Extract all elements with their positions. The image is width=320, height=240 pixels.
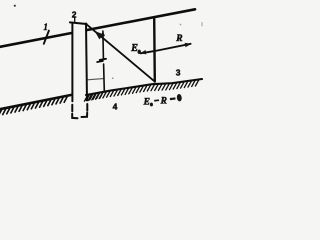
svg-text:E: E — [143, 98, 150, 108]
schematic figure: antenna above ground with rays and field vectors — [0, 0, 207, 136]
svg-text:4: 4 — [113, 102, 118, 112]
mast right edge — [86, 24, 87, 101]
svg-text:1: 1 — [43, 22, 48, 32]
height dimension upper segment — [102, 31, 105, 59]
wire: main slanted line right segment — [87, 9, 196, 30]
svg-text:3: 3 — [176, 68, 181, 78]
ground line right of mast — [86, 79, 202, 95]
left arrowhead (E0) — [140, 50, 147, 54]
receiving element at point 3 — [153, 19, 156, 82]
ray from mast top to point 3 — [87, 24, 155, 81]
leader from 2 to mast top — [74, 17, 76, 23]
ground hatching right — [84, 80, 199, 102]
mast top edge — [70, 22, 87, 24]
dimension mid dash — [97, 59, 106, 62]
tick on wire (ray 1 marker) — [44, 31, 49, 44]
height dimension lower segment — [103, 64, 106, 91]
svg-text:R: R — [160, 96, 167, 106]
buried mast dashed right — [86, 104, 88, 111]
svg-text:E: E — [130, 43, 138, 54]
mast (element 2): left edge — [71, 23, 73, 102]
buried mast dashed bottom-left corner — [72, 114, 77, 118]
E0 / R vector line — [141, 44, 191, 54]
buried mast dashed left — [71, 105, 73, 112]
speck top-left — [14, 5, 16, 7]
right arrowhead (R) — [185, 43, 192, 47]
up arrowhead of dimension — [101, 30, 105, 36]
arrowhead on ray pointing to mast top — [95, 31, 104, 39]
ground line left of mast — [0, 95, 72, 109]
wire: main slanted line left segment — [0, 33, 72, 47]
faint line mast to dimension — [87, 79, 103, 80]
buried mast dashed bottom-right corner — [82, 113, 88, 117]
ground hatching left — [0, 96, 68, 116]
faint speck right — [201, 23, 203, 27]
equation E0 - R = 0 — [143, 94, 183, 108]
svg-text:R: R — [175, 34, 182, 44]
